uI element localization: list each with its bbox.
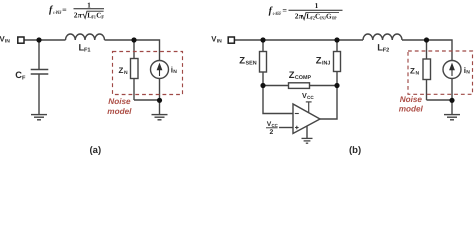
svg-text:Z: Z <box>239 56 245 67</box>
svg-text:N: N <box>124 70 128 76</box>
svg-text:INJ: INJ <box>322 61 330 67</box>
svg-text:c-AEF: c-AEF <box>273 11 281 17</box>
svg-text:N: N <box>416 71 420 77</box>
svg-text:N: N <box>466 70 470 76</box>
svg-text:N: N <box>173 69 177 75</box>
svg-text:model: model <box>399 105 424 114</box>
svg-text:F1: F1 <box>84 48 91 54</box>
svg-text:1: 1 <box>315 1 319 10</box>
svg-text:Z: Z <box>119 66 124 75</box>
svg-text:OP: OP <box>332 16 337 22</box>
svg-text:c-PEF: c-PEF <box>53 10 61 16</box>
svg-text:Noise: Noise <box>108 97 131 106</box>
svg-text:IN: IN <box>217 38 222 44</box>
svg-text:CC: CC <box>272 123 279 128</box>
svg-text:F: F <box>101 14 104 20</box>
svg-text:=: = <box>282 6 287 15</box>
svg-text:2: 2 <box>270 129 274 136</box>
svg-text:Noise: Noise <box>400 95 423 104</box>
svg-text:Z: Z <box>316 55 322 66</box>
svg-text:(a): (a) <box>90 145 102 156</box>
svg-text:Z: Z <box>289 70 295 81</box>
svg-text:IN: IN <box>5 38 10 44</box>
svg-text:model: model <box>107 107 132 116</box>
svg-text:Z: Z <box>410 67 415 76</box>
svg-text:=: = <box>62 5 67 14</box>
svg-text:F: F <box>22 75 26 81</box>
svg-text:(b): (b) <box>349 145 361 156</box>
svg-text:CC: CC <box>307 95 314 100</box>
svg-text:SEN: SEN <box>246 61 257 67</box>
svg-text:F2: F2 <box>383 48 390 54</box>
svg-text:COMP: COMP <box>295 75 312 81</box>
